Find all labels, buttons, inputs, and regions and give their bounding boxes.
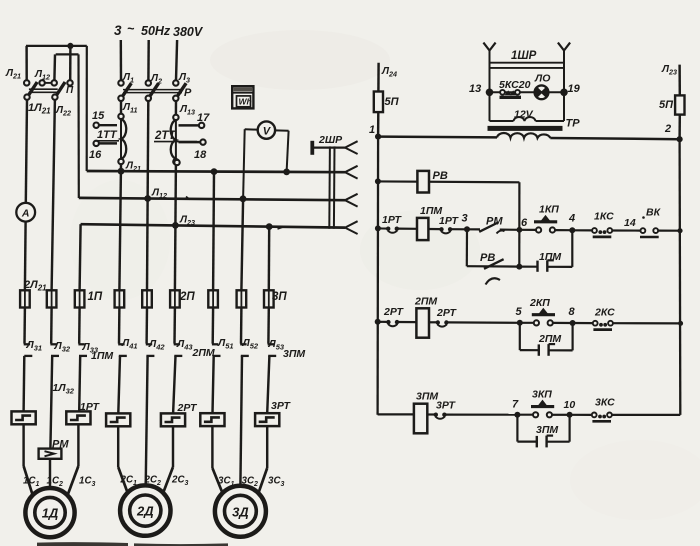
svg-text:2ПМ: 2ПМ xyxy=(414,296,437,308)
svg-text:1РТ: 1РТ xyxy=(382,214,402,226)
svg-text:3КП: 3КП xyxy=(532,389,552,401)
svg-text:2ТТ: 2ТТ xyxy=(154,130,176,142)
svg-text:3: 3 xyxy=(462,213,468,225)
svg-text:5КС20: 5КС20 xyxy=(499,79,531,91)
svg-text:14: 14 xyxy=(624,217,636,229)
svg-text:380V: 380V xyxy=(173,25,204,39)
svg-text:2КП: 2КП xyxy=(529,297,550,309)
svg-text:3П: 3П xyxy=(272,291,287,303)
svg-text:13: 13 xyxy=(469,83,481,95)
svg-text:5: 5 xyxy=(516,306,523,318)
svg-text:1КП: 1КП xyxy=(539,204,559,216)
svg-text:3Д: 3Д xyxy=(232,504,249,519)
svg-text:3ПМ: 3ПМ xyxy=(536,424,558,436)
svg-text:2КС: 2КС xyxy=(594,307,615,319)
svg-text:3ПМ: 3ПМ xyxy=(283,348,305,360)
svg-text:2П: 2П xyxy=(179,291,195,303)
svg-text:Р: Р xyxy=(184,87,192,99)
svg-text:2ПМ: 2ПМ xyxy=(192,347,215,359)
svg-text:10: 10 xyxy=(564,399,576,411)
svg-text:15: 15 xyxy=(92,110,105,122)
svg-text:18: 18 xyxy=(194,149,207,161)
svg-text:19: 19 xyxy=(568,83,581,95)
svg-text:РВ: РВ xyxy=(480,252,495,264)
svg-text:50Hz: 50Hz xyxy=(141,24,171,38)
svg-text:РМ: РМ xyxy=(52,438,69,450)
svg-text:1РТ: 1РТ xyxy=(80,401,100,413)
svg-text:А: А xyxy=(21,208,30,220)
svg-text:12V: 12V xyxy=(514,109,534,121)
svg-text:3РТ: 3РТ xyxy=(436,400,456,412)
svg-text:16: 16 xyxy=(89,149,102,161)
svg-text:2ШР: 2ШР xyxy=(318,134,343,146)
svg-text:1РТ: 1РТ xyxy=(439,215,459,227)
svg-text:17: 17 xyxy=(197,112,210,124)
svg-text:ЛО: ЛО xyxy=(534,73,550,85)
svg-text:1ШР: 1ШР xyxy=(511,50,537,62)
svg-text:1КС: 1КС xyxy=(594,211,614,223)
svg-text:П: П xyxy=(66,85,74,96)
svg-text:1ПМ: 1ПМ xyxy=(539,251,561,263)
svg-text:РВ: РВ xyxy=(433,170,448,182)
svg-text:1П: 1П xyxy=(88,291,103,303)
svg-text:7: 7 xyxy=(512,399,519,411)
svg-text:3: 3 xyxy=(114,23,122,38)
svg-text:Wh: Wh xyxy=(239,96,252,106)
svg-text:1Д: 1Д xyxy=(42,506,59,521)
svg-text:3РТ: 3РТ xyxy=(271,400,291,412)
svg-text:8: 8 xyxy=(569,306,576,318)
svg-text:ВК: ВК xyxy=(646,207,662,219)
svg-text:2: 2 xyxy=(664,123,671,135)
svg-text:2ПМ: 2ПМ xyxy=(538,333,561,345)
svg-text:1ПМ: 1ПМ xyxy=(91,350,113,362)
svg-text:1: 1 xyxy=(369,124,375,136)
svg-text:2РТ: 2РТ xyxy=(436,307,457,319)
svg-text:РМ: РМ xyxy=(486,216,503,228)
svg-text:5П: 5П xyxy=(385,96,400,108)
svg-text:4: 4 xyxy=(568,213,575,225)
svg-text:2РТ: 2РТ xyxy=(177,402,198,414)
svg-text:2РТ: 2РТ xyxy=(383,306,404,318)
svg-text:5П: 5П xyxy=(659,99,674,111)
svg-text:6: 6 xyxy=(521,217,528,229)
svg-text:3КС: 3КС xyxy=(595,397,615,409)
svg-text:2Д: 2Д xyxy=(136,504,154,519)
svg-text:~: ~ xyxy=(127,22,135,36)
svg-text:1ТТ: 1ТТ xyxy=(97,129,118,141)
svg-text:ТР: ТР xyxy=(566,118,581,130)
